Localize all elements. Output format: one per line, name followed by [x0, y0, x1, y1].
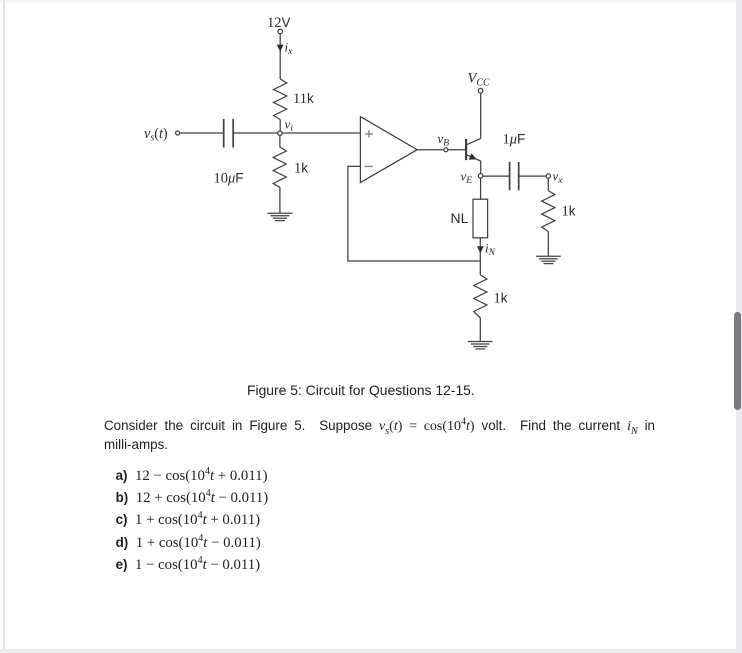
window chrome: top edge tint	[0, 0, 742, 5]
label vi	[285, 116, 294, 134]
option b	[116, 489, 269, 507]
terminal vs	[176, 131, 180, 135]
ground left	[267, 213, 292, 220]
ground right	[536, 256, 561, 263]
capacitor 10uF plate left	[223, 119, 225, 148]
option a	[116, 467, 268, 485]
svg-text:vE: vE	[461, 169, 473, 187]
label Vcc	[468, 71, 491, 89]
nonlinear element NL	[473, 199, 488, 238]
label iN	[485, 241, 496, 259]
wire capacitor 1uF to vx	[519, 175, 546, 177]
wire 1k left to ground	[279, 187, 281, 213]
wire vE to NL element	[480, 178, 482, 199]
figure caption	[247, 382, 475, 398]
wire vs to capacitor 10uF	[180, 132, 223, 134]
wire node iN to 1k bottom	[479, 261, 481, 275]
terminal vE	[478, 174, 483, 179]
wire capacitor to op-amp plus input	[234, 132, 360, 134]
option d	[116, 534, 261, 552]
label 1k right	[562, 203, 576, 219]
resistor 11k	[274, 79, 287, 120]
option c	[116, 511, 261, 529]
current arrow iN	[477, 246, 484, 253]
wire vB to Q1 base	[448, 149, 466, 151]
svg-text:1k: 1k	[494, 290, 508, 306]
wire op-amp output to vB	[417, 149, 444, 151]
window chrome: left edge line	[3, 0, 5, 653]
label vE	[461, 169, 473, 187]
label 1k bottom	[494, 290, 508, 306]
wire Q1 emitter to vE	[480, 161, 482, 173]
capacitor 1uF plate right	[518, 162, 520, 190]
resistor 1k left	[273, 136, 286, 188]
scrollbar gutter	[736, 0, 742, 653]
option e	[116, 556, 261, 574]
svg-text:12V: 12V	[267, 15, 291, 31]
resistor 1k bottom	[474, 275, 487, 318]
wire Q1 collector to Vcc	[480, 93, 482, 138]
label ix	[285, 40, 294, 58]
wire 11k to node vi	[279, 120, 281, 134]
label 1uF	[503, 131, 526, 147]
svg-text:VCC: VCC	[468, 71, 491, 89]
label 12V	[267, 15, 291, 31]
wire feedback from op-amp minus input to node iN	[348, 166, 480, 261]
terminal Vcc	[478, 88, 483, 93]
capacitor 10uF plate right	[232, 119, 234, 148]
svg-text:vB: vB	[438, 131, 450, 149]
terminal 12V	[278, 29, 283, 34]
svg-text:1k: 1k	[562, 203, 576, 219]
wire NL to node iN	[479, 238, 481, 261]
wire 1k right to ground	[547, 232, 549, 257]
wire 12V terminal to 11k resistor	[279, 34, 281, 79]
window chrome: bottom strip	[0, 649, 742, 653]
svg-text:1k: 1k	[294, 160, 308, 176]
terminal vx	[546, 174, 550, 178]
svg-text:vx: vx	[553, 168, 564, 186]
wire vx to 1k right	[547, 178, 549, 190]
wire vE to capacitor 1uF	[483, 175, 509, 177]
svg-text:11k: 11k	[293, 91, 314, 107]
wire 1k bottom to ground	[479, 318, 481, 342]
svg-text:ix: ix	[285, 40, 294, 58]
label 1k left	[294, 160, 308, 176]
label vx	[553, 168, 564, 186]
node vi terminal	[278, 131, 283, 136]
ground bottom	[468, 342, 493, 349]
question paragraph	[104, 416, 655, 437]
op-amp plus input marker	[365, 130, 373, 137]
label vs(t)	[144, 126, 168, 144]
label 11k	[293, 91, 314, 107]
current arrow ix	[277, 45, 284, 52]
op-amp minus input marker	[365, 165, 373, 167]
svg-text:1μF: 1μF	[503, 131, 526, 147]
op-amp U1 body	[360, 117, 417, 183]
svg-text:vi: vi	[285, 116, 294, 134]
label NL	[451, 210, 469, 226]
svg-text:vs(t): vs(t)	[144, 126, 168, 144]
label vB	[438, 131, 450, 149]
capacitor 1uF plate left	[509, 162, 511, 190]
scrollbar thumb	[734, 312, 741, 411]
svg-text:NL: NL	[451, 210, 469, 226]
terminal vB	[444, 148, 448, 152]
transistor Q1	[466, 138, 481, 161]
svg-text:10μF: 10μF	[214, 171, 244, 187]
resistor 1k right	[542, 191, 555, 232]
svg-text:iN: iN	[485, 241, 496, 259]
label 10uF	[214, 171, 244, 187]
